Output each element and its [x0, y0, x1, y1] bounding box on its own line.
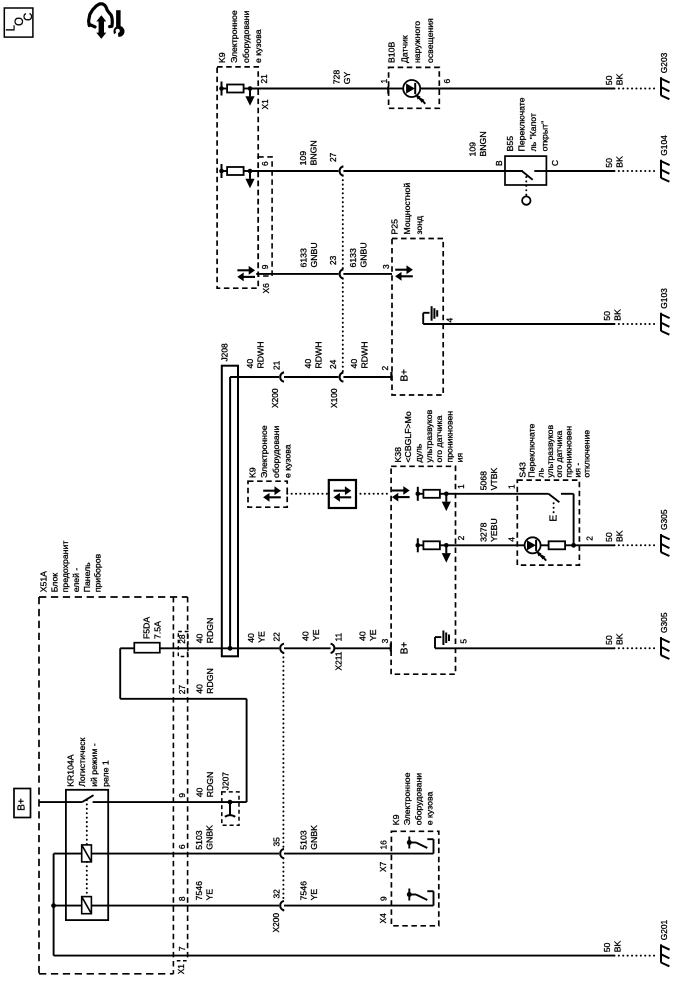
svg-text:21: 21	[259, 74, 269, 84]
svg-text:приборов: приборов	[93, 553, 103, 592]
svg-text:3: 3	[381, 264, 391, 269]
svg-text:K38: K38	[393, 447, 403, 463]
svg-text:ого датчика: ого датчика	[434, 415, 444, 462]
svg-text:40: 40	[358, 631, 368, 641]
svg-text:X211: X211	[333, 651, 343, 670]
svg-text:6: 6	[260, 161, 270, 166]
svg-text:7: 7	[177, 946, 187, 951]
svg-text:BK: BK	[614, 530, 624, 542]
svg-text:50: 50	[604, 158, 614, 168]
svg-text:G104: G104	[659, 135, 669, 156]
svg-text:5103: 5103	[298, 830, 308, 849]
svg-text:RDGN: RDGN	[205, 772, 215, 798]
svg-text:G305: G305	[659, 612, 669, 633]
svg-text:7546: 7546	[194, 881, 204, 900]
svg-text:X7: X7	[378, 861, 388, 872]
svg-text:YE: YE	[309, 889, 319, 901]
svg-text:16: 16	[379, 840, 389, 850]
svg-text:X200: X200	[270, 388, 280, 408]
svg-text:освещения: освещения	[425, 18, 435, 63]
svg-text:G305: G305	[659, 509, 669, 530]
svg-text:7546: 7546	[298, 881, 308, 900]
svg-text:BNGN: BNGN	[478, 131, 488, 156]
svg-text:32: 32	[272, 889, 282, 899]
svg-text:27: 27	[177, 685, 187, 695]
svg-text:реле 1: реле 1	[101, 760, 111, 787]
svg-text:Логистическ: Логистическ	[77, 737, 87, 786]
svg-text:RDWH: RDWH	[313, 341, 323, 368]
svg-text:X4: X4	[378, 913, 388, 924]
svg-text:RDGN: RDGN	[205, 618, 215, 644]
svg-text:4: 4	[445, 318, 455, 323]
svg-text:X100: X100	[329, 388, 339, 408]
svg-text:ль "Капот: ль "Капот	[528, 113, 538, 151]
svg-text:Электронное: Электронное	[229, 10, 239, 63]
svg-text:елей -: елей -	[71, 568, 81, 593]
svg-text:B55: B55	[505, 136, 515, 152]
svg-text:728: 728	[331, 70, 341, 85]
svg-text:4: 4	[507, 537, 517, 542]
svg-text:B: B	[494, 160, 504, 166]
svg-text:27: 27	[328, 152, 338, 162]
svg-text:K9: K9	[217, 52, 227, 63]
svg-text:50: 50	[602, 942, 612, 952]
svg-text:23: 23	[328, 255, 338, 265]
svg-text:RDWH: RDWH	[256, 341, 266, 368]
svg-text:BK: BK	[614, 633, 624, 645]
svg-text:X51A: X51A	[39, 571, 49, 592]
svg-text:YE: YE	[311, 629, 321, 641]
svg-text:21: 21	[272, 360, 282, 370]
svg-text:<CBGLF>Мо: <CBGLF>Мо	[403, 411, 413, 462]
svg-text:открыт": открыт"	[540, 121, 550, 152]
svg-text:оборудовани: оборудовани	[271, 426, 281, 478]
svg-text:G201: G201	[659, 919, 669, 940]
svg-text:ультразвуков: ультразвуков	[424, 409, 434, 462]
svg-text:YE: YE	[204, 889, 214, 901]
svg-text:GNBU: GNBU	[358, 242, 368, 267]
svg-text:40: 40	[303, 359, 313, 369]
svg-text:X1: X1	[260, 99, 270, 110]
svg-text:6133: 6133	[348, 248, 358, 267]
svg-text:Панель: Панель	[82, 562, 92, 592]
svg-text:40: 40	[194, 787, 204, 797]
svg-text:е кузова: е кузова	[282, 444, 292, 478]
svg-text:BK: BK	[613, 941, 623, 953]
svg-text:109: 109	[468, 142, 478, 157]
svg-text:GY: GY	[342, 72, 352, 85]
svg-text:40: 40	[246, 633, 256, 643]
svg-text:50: 50	[604, 532, 614, 542]
svg-text:7.5A: 7.5A	[152, 621, 162, 639]
svg-text:ий режим -: ий режим -	[89, 743, 99, 787]
svg-text:оборудовани: оборудовани	[241, 11, 251, 63]
svg-text:YEBU: YEBU	[489, 518, 499, 542]
svg-text:1: 1	[456, 484, 466, 489]
svg-text:J208: J208	[219, 343, 229, 362]
svg-text:X6: X6	[261, 283, 271, 294]
svg-text:50: 50	[604, 75, 614, 85]
svg-text:Электронное: Электронное	[402, 772, 412, 825]
svg-text:50: 50	[604, 635, 614, 645]
svg-text:1: 1	[507, 484, 517, 489]
svg-text:9: 9	[260, 264, 270, 269]
svg-text:BK: BK	[614, 73, 624, 85]
svg-text:50: 50	[602, 311, 612, 321]
svg-text:J207: J207	[220, 772, 230, 791]
svg-text:B+: B+	[17, 798, 28, 811]
svg-text:проникновен: проникновен	[444, 411, 454, 463]
svg-text:YE: YE	[368, 629, 378, 641]
svg-text:X1: X1	[176, 964, 186, 975]
svg-text:KR104A: KR104A	[65, 754, 75, 787]
svg-text:F5DA: F5DA	[141, 617, 151, 639]
svg-text:E: E	[547, 515, 559, 522]
svg-text:C: C	[23, 13, 35, 21]
svg-text:Переключате: Переключате	[516, 97, 526, 151]
svg-text:B10B: B10B	[387, 42, 397, 63]
svg-text:109: 109	[298, 151, 308, 166]
svg-text:6133: 6133	[298, 248, 308, 267]
svg-text:11: 11	[334, 632, 344, 641]
svg-text:5103: 5103	[194, 830, 204, 849]
svg-text:9: 9	[177, 793, 187, 798]
svg-text:1: 1	[379, 79, 389, 84]
svg-text:40: 40	[245, 359, 255, 369]
svg-text:зонд: зонд	[414, 216, 424, 235]
svg-text:X200: X200	[271, 913, 281, 933]
svg-text:GNBK: GNBK	[309, 825, 319, 850]
svg-text:дуль: дуль	[414, 443, 424, 462]
svg-text:3278: 3278	[478, 522, 488, 541]
svg-text:BK: BK	[613, 309, 623, 321]
svg-text:GNBK: GNBK	[204, 825, 214, 850]
svg-text:40: 40	[349, 359, 359, 369]
svg-text:RDGN: RDGN	[205, 668, 215, 694]
svg-text:B+: B+	[400, 642, 411, 655]
svg-text:3: 3	[380, 638, 390, 643]
svg-text:е кузова: е кузова	[253, 29, 263, 63]
svg-text:5068: 5068	[478, 471, 488, 490]
svg-text:Датчик: Датчик	[399, 35, 409, 63]
svg-text:8: 8	[177, 896, 187, 901]
svg-text:C: C	[550, 160, 560, 166]
svg-text:5: 5	[459, 639, 469, 644]
svg-text:6: 6	[177, 844, 187, 849]
svg-text:24: 24	[328, 359, 338, 369]
svg-text:P25: P25	[390, 219, 400, 235]
svg-text:GNBU: GNBU	[309, 242, 319, 267]
svg-text:ия: ия	[455, 453, 465, 463]
svg-text:22: 22	[272, 632, 282, 642]
svg-text:YE: YE	[256, 631, 266, 643]
svg-text:RDWH: RDWH	[359, 341, 369, 368]
svg-text:B+: B+	[400, 369, 411, 382]
svg-text:9: 9	[379, 896, 389, 901]
svg-text:Мощностной: Мощностной	[402, 183, 412, 235]
svg-text:отключение: отключение	[582, 430, 592, 478]
svg-text:Электронное: Электронное	[259, 425, 269, 478]
svg-text:6: 6	[442, 79, 452, 84]
svg-text:40: 40	[194, 633, 204, 643]
svg-text:BK: BK	[614, 156, 624, 168]
svg-text:оборудовани: оборудовани	[413, 773, 423, 825]
svg-text:40: 40	[194, 684, 204, 694]
svg-text:35: 35	[272, 837, 282, 847]
svg-text:VTBK: VTBK	[489, 468, 499, 491]
svg-text:Блок: Блок	[49, 573, 59, 593]
svg-text:BNGN: BNGN	[309, 140, 319, 165]
svg-text:2: 2	[456, 535, 466, 540]
svg-text:предохранит: предохранит	[60, 541, 70, 593]
svg-text:2: 2	[380, 366, 390, 371]
svg-text:G203: G203	[659, 52, 669, 73]
svg-text:2: 2	[584, 536, 594, 541]
svg-text:40: 40	[301, 631, 311, 641]
svg-text:наружного: наружного	[412, 21, 422, 63]
svg-text:е кузова: е кузова	[425, 791, 435, 825]
svg-text:K9: K9	[391, 814, 401, 825]
svg-text:K9: K9	[248, 467, 258, 478]
svg-text:G103: G103	[659, 288, 669, 309]
